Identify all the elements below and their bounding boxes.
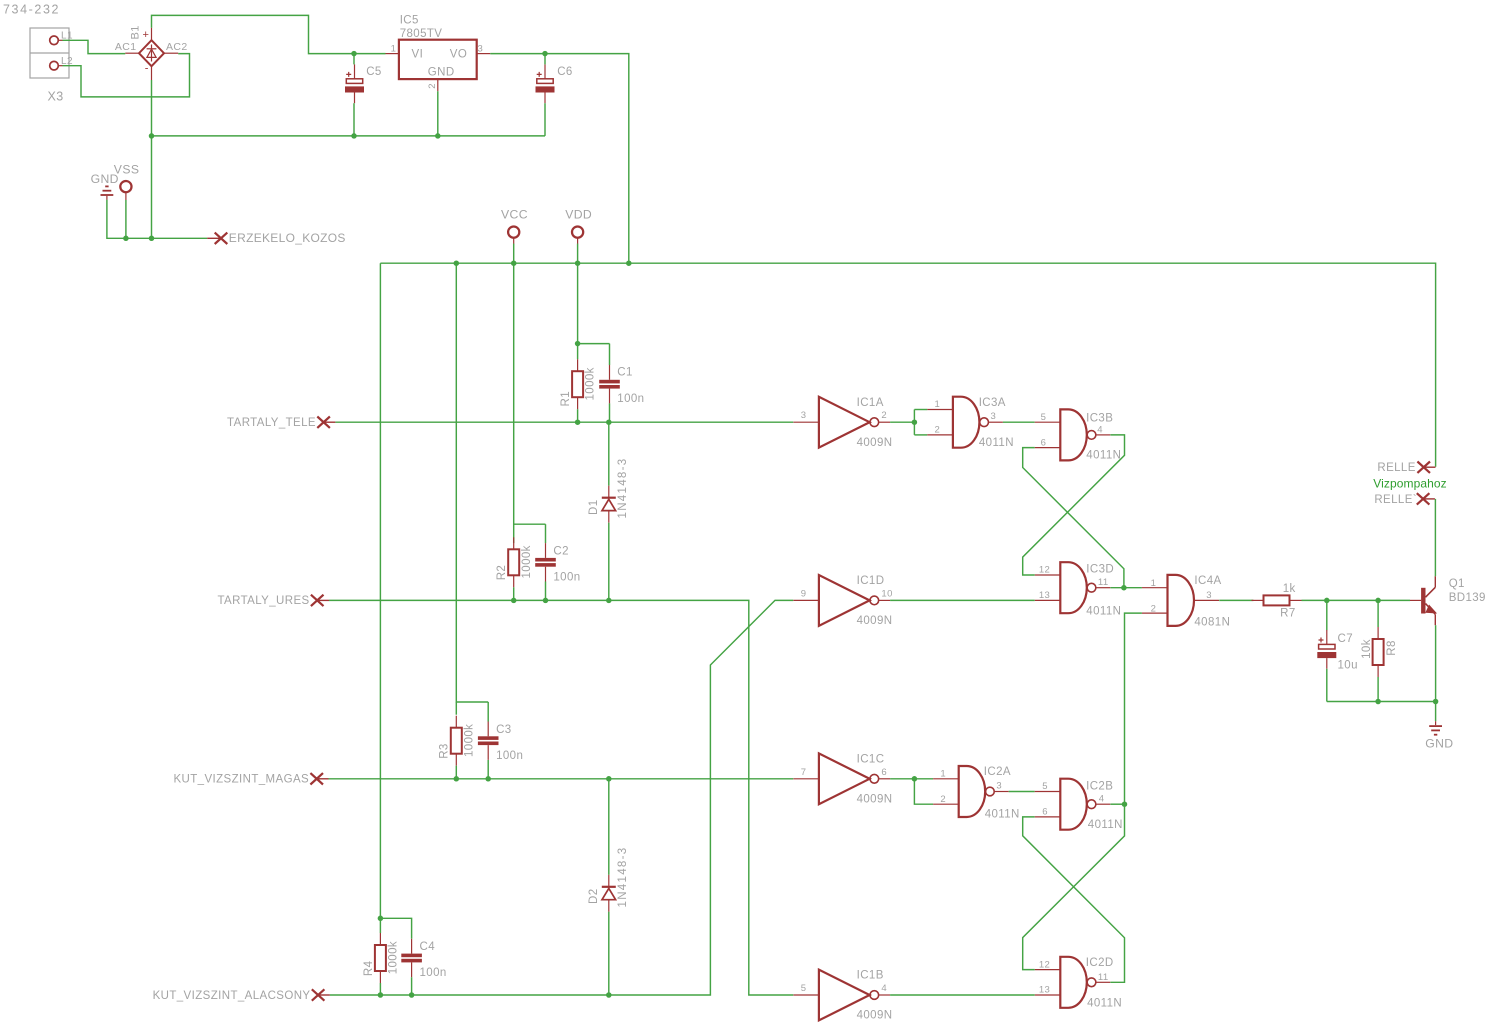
wire to IC3A pin2: [914, 434, 927, 436]
svg-text:2: 2: [881, 410, 887, 421]
svg-text:4009N: 4009N: [857, 615, 893, 627]
supply pin VDD: [572, 227, 583, 244]
junction R1/TELE: [575, 419, 581, 425]
wire IC2B out: [1110, 803, 1124, 805]
wire Q1 emitter down: [1435, 625, 1437, 701]
svg-text:R1: R1: [560, 391, 572, 407]
svg-text:B1: B1: [130, 25, 142, 39]
svg-text:1000k: 1000k: [463, 724, 475, 757]
wire R2 bottom: [513, 587, 515, 600]
svg-text:IC2B: IC2B: [1086, 781, 1113, 793]
capacitor C1: [599, 365, 620, 403]
svg-text:5: 5: [801, 983, 807, 994]
net flag KUT_VIZSZINT_MAGAS: [310, 773, 328, 784]
svg-text:TARTALY_TELE: TARTALY_TELE: [227, 417, 316, 429]
svg-text:IC1B: IC1B: [857, 970, 884, 982]
wire C7 top segment: [1326, 600, 1328, 630]
wire main VDD bus: [380, 263, 1435, 467]
svg-text:AC2: AC2: [166, 41, 188, 53]
svg-text:3: 3: [478, 44, 484, 55]
resistor R1: [572, 359, 583, 409]
wire D1 top: [608, 422, 610, 486]
svg-text:4011N: 4011N: [1088, 819, 1123, 831]
wire gnd bus under supply: [152, 135, 546, 137]
svg-text:3: 3: [1206, 590, 1212, 601]
junction R4/C4 top: [378, 916, 384, 922]
svg-text:D1: D1: [588, 499, 600, 515]
svg-text:2: 2: [1151, 604, 1157, 615]
svg-text:2: 2: [940, 794, 946, 805]
svg-text:1N4148-3: 1N4148-3: [617, 458, 629, 519]
junction R3/MAGAS: [454, 776, 460, 782]
junction IC1C out split: [912, 776, 918, 782]
svg-text:13: 13: [1039, 985, 1050, 996]
svg-text:VO: VO: [450, 49, 467, 61]
svg-text:7: 7: [801, 767, 807, 778]
nand gate IC3B: [1035, 409, 1111, 460]
wire IC3A out to IC3B pin5: [1003, 421, 1035, 423]
junction IC3D out/feedback: [1121, 585, 1127, 591]
wire VCC column down: [514, 263, 546, 524]
wire C1 top: [609, 344, 611, 365]
svg-text:GND: GND: [428, 67, 455, 79]
wire C2 top: [545, 524, 547, 543]
wire IC3D out to IC4A pin1: [1110, 587, 1142, 589]
svg-text:C6: C6: [557, 66, 573, 78]
junction bus/R3 column: [454, 260, 460, 266]
junction R2/URES: [511, 598, 517, 604]
supply pin VSS: [120, 181, 131, 200]
svg-text:KUT_VIZSZINT_ALACSONY: KUT_VIZSZINT_ALACSONY: [153, 990, 311, 1002]
nand gate IC2D: [1035, 957, 1111, 1008]
svg-text:10k: 10k: [1361, 639, 1373, 659]
svg-text:R3: R3: [439, 743, 451, 759]
svg-text:734-232: 734-232: [3, 3, 60, 17]
wire IC5 VO to bus: [490, 54, 629, 264]
svg-text:C1: C1: [617, 366, 633, 378]
svg-text:TARTALY_URES: TARTALY_URES: [217, 595, 309, 607]
capacitor C5: [345, 64, 364, 103]
svg-text:IC2A: IC2A: [984, 766, 1011, 778]
nand gate IC2B: [1035, 779, 1111, 830]
junction C2/URES: [543, 598, 549, 604]
nand gate IC3A: [927, 397, 1003, 448]
wire bus left column down: [379, 263, 381, 918]
nand gate IC2A: [933, 766, 1009, 817]
inverter IC1A: [793, 397, 890, 448]
wire TARTALY_TELE: [335, 421, 793, 423]
svg-text:IC1D: IC1D: [857, 575, 885, 587]
junction IC1A out split: [912, 419, 918, 425]
diode D2: [602, 875, 616, 912]
wire C6 bottom: [544, 103, 546, 136]
supply pin VCC: [508, 227, 519, 244]
net flag RELLE: [1417, 462, 1435, 473]
wire IC2D.11 feedback to IC2B.6: [1023, 817, 1125, 982]
voltage regulator IC5: [386, 40, 491, 91]
svg-text:+: +: [143, 29, 150, 41]
svg-text:6: 6: [1042, 807, 1048, 818]
wire C7 bottom segment: [1326, 669, 1328, 702]
svg-text:9: 9: [801, 588, 807, 599]
svg-text:C3: C3: [496, 724, 512, 736]
svg-text:IC4A: IC4A: [1194, 575, 1221, 587]
svg-text:11: 11: [1098, 972, 1109, 983]
wire IC2A out to IC2B pin5: [1009, 791, 1035, 793]
svg-text:C7: C7: [1338, 633, 1354, 645]
wire R3 bottom: [455, 766, 457, 779]
resistor R2: [508, 537, 519, 587]
wire Q1 collector to RELLE': [1434, 499, 1436, 576]
ground GND (output): [1429, 721, 1442, 735]
wire VDD column down: [578, 263, 610, 343]
ground GND (supply): [101, 186, 114, 200]
and gate IC4A: [1142, 575, 1219, 626]
svg-text:IC1A: IC1A: [857, 397, 884, 409]
svg-text:1000k: 1000k: [585, 367, 597, 400]
wire R8 bottom segment: [1377, 677, 1379, 702]
wire IC4A.2 down to IC2B out: [1125, 613, 1142, 804]
wire R2 top: [513, 524, 515, 543]
svg-text:X3: X3: [48, 90, 64, 104]
wire IC3A input split vertical: [913, 410, 915, 435]
svg-text:R7: R7: [1280, 608, 1296, 620]
svg-text:4: 4: [1099, 794, 1105, 805]
svg-text:100n: 100n: [496, 750, 523, 762]
svg-text:IC3B: IC3B: [1086, 413, 1113, 425]
svg-text:IC3D: IC3D: [1086, 564, 1114, 576]
wire KUT_VIZSZINT_ALACSONY to IC1D: [330, 600, 793, 995]
wire B1- down: [151, 80, 153, 238]
transistor Q1: [1410, 576, 1436, 625]
svg-text:1: 1: [391, 44, 397, 55]
junction R1/C1 top: [575, 341, 581, 347]
junction B1-/VSS bus: [149, 236, 155, 242]
junction C5/IC5 VI: [351, 51, 357, 57]
junction D2/ALACSONY: [606, 992, 612, 998]
svg-text:4: 4: [881, 983, 887, 994]
svg-text:4009N: 4009N: [857, 793, 893, 805]
wire C1 bottom: [609, 403, 611, 422]
wire C4 branch: [380, 918, 411, 939]
svg-text:5: 5: [1042, 781, 1048, 792]
svg-text:GND: GND: [1425, 736, 1453, 750]
wire R3 top: [455, 702, 457, 715]
junction C4/ALACSONY: [409, 992, 415, 998]
svg-text:4011N: 4011N: [985, 808, 1020, 820]
net flag RELLE': [1417, 493, 1435, 504]
wire IC2B.4 to IC2D.12: [1023, 804, 1125, 969]
svg-text:100n: 100n: [617, 393, 644, 405]
resistor R4: [375, 933, 386, 983]
svg-text:100n: 100n: [420, 967, 447, 979]
wire IC1A out: [890, 421, 914, 423]
svg-text:R4: R4: [363, 960, 375, 976]
svg-text:13: 13: [1039, 590, 1050, 601]
inverter IC1B: [793, 970, 890, 1021]
wire VSS bus: [107, 200, 207, 239]
wire D2 bottom: [608, 912, 610, 995]
svg-text:11: 11: [1098, 577, 1109, 588]
svg-text:IC1C: IC1C: [857, 753, 885, 765]
svg-text:4011N: 4011N: [979, 437, 1014, 449]
wire emitter ground bus: [1327, 701, 1436, 703]
junction D1/URES: [606, 598, 612, 604]
svg-text:IC2D: IC2D: [1086, 957, 1114, 969]
wire IC1D out to IC3D pin13: [890, 599, 1035, 601]
svg-text:2: 2: [427, 83, 438, 89]
svg-text:1: 1: [1151, 578, 1157, 589]
svg-text:1000k: 1000k: [521, 545, 533, 578]
svg-text:D2: D2: [588, 888, 600, 904]
junction bus/VDD: [575, 260, 581, 266]
svg-text:100n: 100n: [553, 572, 580, 584]
wire L2-AC2: [63, 54, 190, 97]
net flag ERZEKELO_KOZOS: [207, 233, 227, 244]
svg-text:1: 1: [940, 769, 946, 780]
wire C5 top: [353, 54, 355, 65]
svg-text:VI: VI: [412, 49, 424, 61]
diode D1: [602, 486, 616, 523]
svg-text:Vizpompahoz: Vizpompahoz: [1373, 477, 1447, 491]
svg-text:4009N: 4009N: [857, 437, 893, 449]
svg-text:RELLE`: RELLE`: [1374, 494, 1417, 506]
svg-text:R2: R2: [496, 565, 508, 581]
junction R8 bottom: [1375, 699, 1381, 705]
svg-text:10u: 10u: [1338, 660, 1358, 672]
resistor R3: [451, 716, 462, 766]
svg-text:1N4148-3: 1N4148-3: [617, 847, 629, 908]
svg-text:3: 3: [996, 781, 1002, 792]
wire C2 bottom: [545, 582, 547, 601]
net flag TARTALY_URES: [311, 595, 329, 606]
wire R8 top segment: [1377, 600, 1379, 627]
wire VSS pin down: [125, 200, 127, 238]
svg-text:3: 3: [801, 410, 807, 421]
wire IC3B.4 to IC3D.12: [1023, 435, 1125, 575]
wire IC1B out to IC2D pin13: [890, 994, 1035, 996]
wire TARTALY_URES to IC1B: [329, 600, 793, 995]
wire VCC to bus: [513, 244, 515, 264]
svg-text:IC5: IC5: [400, 15, 419, 27]
junction bus/IC5 output: [626, 260, 632, 266]
junction D2/MAGAS: [606, 776, 612, 782]
wire IC5 GND down: [437, 91, 439, 136]
wire to IC2A pin2: [914, 779, 933, 804]
svg-text:VCC: VCC: [501, 208, 528, 222]
svg-text:3: 3: [991, 411, 997, 422]
junction bus/VCC: [511, 260, 517, 266]
svg-text:R8: R8: [1386, 640, 1398, 656]
inverter IC1C: [793, 753, 890, 804]
svg-text:4081N: 4081N: [1194, 617, 1230, 629]
svg-text:4009N: 4009N: [857, 1010, 893, 1022]
wire VDD to bus: [577, 244, 579, 264]
wire B1+ to IC5 VI: [152, 15, 386, 53]
svg-text:ERZEKELO_KOZOS: ERZEKELO_KOZOS: [229, 231, 346, 245]
junction C3/MAGAS: [485, 776, 491, 782]
net flag TARTALY_TELE: [317, 417, 335, 428]
svg-text:4011N: 4011N: [1086, 450, 1121, 462]
wire D2 top: [608, 779, 610, 875]
wire R1 bottom: [577, 409, 579, 422]
bridge rectifier B1: [125, 28, 178, 80]
resistor R7: [1252, 595, 1302, 605]
svg-text:1k: 1k: [1283, 583, 1296, 595]
svg-text:4011N: 4011N: [1086, 606, 1121, 618]
wire C3 bottom: [487, 760, 489, 779]
wire C4 bottom: [411, 977, 413, 995]
junction C1/TELE: [606, 419, 612, 425]
capacitor C2: [535, 543, 556, 581]
nand gate IC3D: [1035, 562, 1111, 613]
wire to IC3A pin1: [914, 409, 927, 411]
junction C6/IC5 VO: [542, 51, 548, 57]
svg-text:6: 6: [881, 767, 887, 778]
junction B1-/gnd bus: [149, 133, 155, 139]
svg-text:4011N: 4011N: [1087, 997, 1122, 1009]
svg-text:4: 4: [1097, 424, 1103, 435]
svg-text:1000k: 1000k: [387, 941, 399, 974]
capacitor C4: [401, 939, 422, 977]
svg-text:2: 2: [935, 425, 941, 436]
inverter IC1D: [793, 575, 890, 626]
wire IC3B.6 feedback: [1023, 448, 1124, 588]
svg-text:VSS: VSS: [114, 163, 140, 177]
svg-text:6: 6: [1041, 437, 1047, 448]
svg-text:C4: C4: [420, 941, 436, 953]
svg-text:12: 12: [1039, 959, 1050, 970]
svg-text:-: -: [145, 63, 149, 75]
junction emitter/gnd: [1433, 699, 1439, 705]
wire KUT_VIZSZINT_MAGAS: [329, 778, 794, 780]
svg-text:5: 5: [1041, 412, 1047, 423]
svg-text:AC1: AC1: [115, 41, 137, 53]
connector X3: [30, 28, 69, 78]
junction C5/gnd bus: [351, 133, 357, 139]
junction IC2B out: [1122, 801, 1128, 807]
wire C3 top: [487, 702, 489, 722]
capacitor C3: [478, 722, 499, 760]
svg-text:12: 12: [1039, 565, 1050, 576]
svg-text:1: 1: [935, 399, 941, 410]
svg-text:BD139: BD139: [1449, 592, 1486, 604]
svg-text:7805TV: 7805TV: [400, 28, 443, 40]
wire R4 top: [379, 918, 381, 933]
svg-text:10: 10: [881, 588, 892, 599]
wire R3 column down: [456, 263, 488, 702]
capacitor C6: [536, 64, 555, 103]
svg-text:KUT_VIZSZINT_MAGAS: KUT_VIZSZINT_MAGAS: [173, 774, 309, 786]
wire R7 to Q1 base: [1302, 599, 1411, 601]
net flag KUT_VIZSZINT_ALACSONY: [312, 989, 330, 1000]
junction IC5 GND/gnd bus: [435, 133, 441, 139]
junction VSS/bus: [123, 236, 128, 242]
svg-text:Q1: Q1: [1449, 578, 1465, 590]
wire C5 bottom: [353, 103, 355, 136]
wire R4 bottom: [379, 983, 381, 995]
wire C6 top: [544, 54, 546, 65]
junction R4/ALACSONY: [378, 992, 384, 998]
wire to IC2A pin1: [914, 778, 933, 780]
wire IC4A out to R7: [1219, 599, 1253, 601]
svg-text:IC3A: IC3A: [979, 397, 1006, 409]
svg-text:C2: C2: [553, 546, 569, 558]
resistor R8: [1373, 627, 1384, 677]
junction C7 top: [1324, 598, 1330, 604]
wire D1 bottom: [608, 523, 610, 601]
svg-text:RELLE: RELLE: [1377, 462, 1415, 474]
svg-text:VDD: VDD: [565, 208, 592, 222]
wire R1 top: [577, 344, 579, 360]
svg-text:C5: C5: [366, 66, 382, 78]
capacitor C7: [1317, 630, 1336, 669]
wire to GND symbol: [1435, 702, 1437, 722]
wire IC1C out: [890, 778, 914, 780]
wire L1-AC1: [63, 40, 126, 53]
junction R8 top: [1375, 598, 1381, 604]
